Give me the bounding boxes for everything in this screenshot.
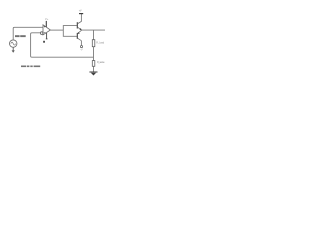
- ground (arrow terminal below V1): [12, 47, 15, 53]
- power VCC bar (top supply): [79, 13, 83, 15]
- svg-text:-V: -V: [80, 49, 83, 52]
- wire (feedback: from bubble around to bottom rail node): [31, 33, 94, 57]
- ground (earth symbol): [89, 72, 97, 76]
- node label (feedback input bubble on U1): [40, 32, 43, 35]
- pin label - (inverting input): [44, 31, 46, 33]
- svg-text:R_sense: R_sense: [97, 61, 105, 64]
- wire (Q2 collector down to negative supply terminal): [80, 41, 82, 46]
- value label for V1: [15, 35, 26, 37]
- power -V terminal (open circle): [80, 46, 82, 48]
- label mark below op-amp: [43, 41, 45, 43]
- svg-text:+V: +V: [79, 9, 82, 12]
- voltage source V1 (AC sine source): [10, 40, 17, 47]
- pin label + (non-inverting input): [44, 26, 46, 28]
- resistor R2 (to ground): [92, 61, 95, 67]
- wire (V1 top to op-amp non-inverting input): [13, 27, 43, 40]
- wire (output node to right): [81, 29, 105, 31]
- wire (tee down to Q2 base): [63, 30, 77, 36]
- power pin V- stub below U1: [46, 33, 48, 39]
- svg-text:R_load: R_load: [96, 41, 104, 44]
- wire (tee up to Q1 base): [63, 26, 77, 31]
- caption text: [21, 66, 40, 68]
- op-amp U1: [43, 25, 50, 35]
- wire (U1 output to base split tee): [50, 29, 63, 31]
- svg-text:V+: V+: [45, 18, 49, 21]
- transistor Q2 (bottom PNP): [77, 30, 81, 40]
- wire (Q1 collector up to supply): [80, 14, 82, 22]
- wire (node down to R_load): [93, 30, 95, 40]
- resistor R_load: [92, 40, 95, 47]
- wire (R_load bottom to bottom rail): [93, 47, 95, 61]
- wire (Q1 emitter down to output node): [80, 29, 82, 32]
- power pin V+ stub on U1: [45, 21, 47, 27]
- transistor Q1 (top NPN): [77, 21, 81, 30]
- wire (R2 to ground): [93, 66, 95, 71]
